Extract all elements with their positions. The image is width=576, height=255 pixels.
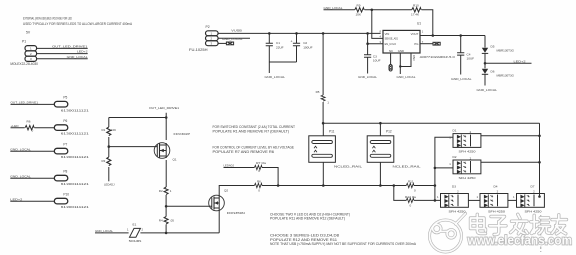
svg-text:SFH 4250: SFH 4250 <box>459 150 476 154</box>
svg-text:22UF: 22UF <box>276 46 284 50</box>
resistor R10 <box>411 3 433 35</box>
junction <box>371 9 374 12</box>
svg-text:PAD: PAD <box>412 55 416 61</box>
svg-text:U1: U1 <box>417 22 421 26</box>
svg-text:P11: P11 <box>329 130 335 134</box>
junction <box>484 62 487 65</box>
note: external bus voltage text <box>23 17 132 26</box>
svg-text:POPULATE R11 AND REMOVE R12 (D: POPULATE R11 AND REMOVE R12 (DEFAULT) <box>270 217 345 221</box>
wire P1 pin2 <box>37 53 88 55</box>
wire to D2 <box>435 167 453 169</box>
svg-text:P12: P12 <box>386 130 392 134</box>
wire P1 pin1 <box>37 47 88 49</box>
svg-text:R5: R5 <box>316 90 320 94</box>
junction <box>322 122 325 125</box>
junction <box>459 34 462 37</box>
junction <box>538 161 541 164</box>
svg-text:R11: R11 <box>408 180 414 184</box>
resistor R4 <box>159 206 175 233</box>
junction <box>108 145 111 148</box>
svg-text:D6: D6 <box>491 69 495 73</box>
svg-text:GND_LOCAL: GND_LOCAL <box>397 75 416 79</box>
junction <box>366 42 369 45</box>
capacitor C4 <box>457 36 474 75</box>
resistor R11 <box>406 180 435 193</box>
junction <box>393 184 396 187</box>
capacitor C2 <box>291 33 313 62</box>
svg-text:FDV302P: FDV302P <box>174 132 191 136</box>
svg-text:10K: 10K <box>111 128 116 132</box>
svg-text:GND_LOCAL: GND_LOCAL <box>222 37 243 41</box>
junction <box>538 135 541 138</box>
note: switched constant current <box>213 125 296 133</box>
svg-text:GND_LOCAL: GND_LOCAL <box>358 75 377 79</box>
wire VOUT rail <box>420 35 485 37</box>
svg-text:17.4K: 17.4K <box>411 13 420 17</box>
svg-text:61300111121: 61300111121 <box>61 182 90 186</box>
svg-text:www.elecfans.com: www.elecfans.com <box>467 233 572 248</box>
junction <box>434 184 437 187</box>
LED D3 <box>437 185 468 214</box>
svg-text:LED+2: LED+2 <box>77 50 88 54</box>
wire GND pin <box>399 53 401 74</box>
junction <box>165 232 168 235</box>
jumper E1 <box>127 222 144 243</box>
svg-text:SFH 4250: SFH 4250 <box>525 210 542 214</box>
junction <box>434 167 437 170</box>
wire sense divider <box>372 10 383 39</box>
svg-text:100UF: 100UF <box>303 46 312 50</box>
svg-text:FOR SWITCHED CONSTANT (2.4A) T: FOR SWITCHED CONSTANT (2.4A) TOTAL CURRE… <box>213 125 296 129</box>
LED D4 <box>477 185 508 214</box>
diode D5 <box>482 36 515 64</box>
svg-text:D3: D3 <box>452 185 456 189</box>
svg-text:GND_LOCAL: GND_LOCAL <box>451 77 472 81</box>
resistor R12 <box>394 186 441 208</box>
junction <box>165 116 168 119</box>
note: choose 3 series LED <box>270 233 417 246</box>
wire bottom rail <box>140 232 219 234</box>
junction <box>268 32 271 35</box>
resistor R3 <box>102 147 111 182</box>
wire to Q1 gate <box>109 146 156 148</box>
svg-text:D1: D1 <box>453 129 457 133</box>
connector P11 LED rail socket <box>309 123 363 185</box>
svg-text:GND_LOCAL: GND_LOCAL <box>67 55 88 59</box>
svg-text:LEDADJ: LEDADJ <box>104 183 115 187</box>
resistor R6 <box>254 179 323 192</box>
svg-text:MBR130T3G: MBR130T3G <box>497 48 515 52</box>
svg-text:P8: P8 <box>63 170 67 174</box>
svg-text:LEDADJ: LEDADJ <box>224 163 235 167</box>
testpoint P6 <box>11 119 90 136</box>
svg-text:USED TYPICALLY FOR SERIES LEDS: USED TYPICALLY FOR SERIES LEDS TO ALLOW … <box>23 22 132 26</box>
svg-text:0: 0 <box>32 129 34 133</box>
svg-text:POPULATE R1 AND REMOVE R7 (D: POPULATE R1 AND REMOVE R7 (DEFAULT) <box>213 129 290 133</box>
net-tie PG flag <box>433 42 440 45</box>
testpoint P10 <box>10 193 89 210</box>
wire top of Q1 divider <box>109 113 166 140</box>
wire D4-D7 <box>508 199 517 201</box>
resistor R7 <box>224 161 279 186</box>
wire Q2 drain up <box>219 186 254 199</box>
svg-text:Q1: Q1 <box>173 157 177 161</box>
LED D7 <box>513 185 544 214</box>
svg-text:50OHMS: 50OHMS <box>129 239 142 243</box>
resistor R5 <box>316 33 330 123</box>
svg-text:R10: R10 <box>413 3 419 7</box>
svg-text:P5: P5 <box>63 96 67 100</box>
transistor Q1 <box>154 132 190 162</box>
svg-text:61300111121: 61300111121 <box>61 155 90 159</box>
svg-text:PG: PG <box>414 42 418 46</box>
svg-text:SFH 4250: SFH 4250 <box>449 210 466 214</box>
junction <box>277 184 280 187</box>
transistor Q2 <box>209 188 245 214</box>
junction <box>379 122 382 125</box>
wire to Q2 gate <box>166 205 210 207</box>
svg-text:10UF: 10UF <box>467 56 475 60</box>
connector P12 LED rail socket <box>367 123 421 185</box>
svg-text:R2: R2 <box>159 189 163 193</box>
svg-text:10K: 10K <box>356 13 362 17</box>
junction VIN <box>366 32 369 35</box>
svg-text:D2: D2 <box>453 155 457 159</box>
wire bottom rail <box>95 232 129 234</box>
svg-text:LED+2: LED+2 <box>514 59 526 63</box>
svg-text:R4: R4 <box>159 219 163 223</box>
svg-text:61300111121: 61300111121 <box>61 108 90 112</box>
wire rail bottom <box>323 185 406 187</box>
wire Q1 drain down <box>165 160 167 187</box>
svg-text:GND_LOCAL: GND_LOCAL <box>477 88 498 92</box>
svg-text:E1: E1 <box>133 222 137 226</box>
resistor R2 <box>159 187 172 206</box>
svg-text:ADP7102ARDZ-5.0: ADP7102ARDZ-5.0 <box>420 55 455 59</box>
junction <box>165 205 168 208</box>
testpoint P5 <box>11 96 90 113</box>
svg-text:P6: P6 <box>63 119 67 123</box>
svg-text:GND: GND <box>398 49 404 53</box>
connector P1 <box>10 39 38 66</box>
svg-text:P2: P2 <box>206 25 210 29</box>
svg-text:OUT_LED_DRIVE1: OUT_LED_DRIVE1 <box>149 106 179 110</box>
junction <box>295 32 298 35</box>
svg-text:POPULATE R7 AND REMOVE R6: POPULATE R7 AND REMOVE R6 <box>213 150 275 154</box>
connector P2 <box>189 25 218 52</box>
svg-text:C2: C2 <box>303 41 307 45</box>
testpoint P7 <box>10 143 89 160</box>
wire Q2 source down <box>218 208 220 233</box>
svg-text:NCLED_RAIL: NCLED_RAIL <box>393 164 421 168</box>
svg-text:R3: R3 <box>102 159 106 163</box>
svg-text:VIN: VIN <box>385 32 390 36</box>
wire LED+ <box>485 62 532 64</box>
wire D1/D2 feed vertical <box>435 137 453 200</box>
wire LED top rail <box>323 122 539 124</box>
testpoint P8 <box>10 170 89 187</box>
svg-text:GND_LOCAL: GND_LOCAL <box>265 75 286 79</box>
diode D6 <box>482 63 515 85</box>
note: choose two LED <box>270 212 350 220</box>
svg-text:SENSE_ADJ: SENSE_ADJ <box>385 37 399 41</box>
svg-text:D7: D7 <box>531 185 535 189</box>
note: control of current level <box>213 145 295 154</box>
watermark text 电子发烧友 <box>471 214 567 234</box>
svg-text:MOLEX22-28-4030: MOLEX22-28-4030 <box>10 62 38 66</box>
wire cap ground <box>269 62 296 73</box>
wire P2 pin3 stub <box>218 42 226 44</box>
junction <box>432 34 435 37</box>
svg-text:C1: C1 <box>276 41 280 45</box>
pin PG stub <box>420 43 433 45</box>
svg-text:VOUT: VOUT <box>411 32 419 36</box>
wire P1 pin3 <box>37 58 88 60</box>
svg-text:P1: P1 <box>22 39 26 43</box>
svg-text:P7: P7 <box>63 143 67 147</box>
LED D2 <box>449 155 539 180</box>
wire VUSB rail <box>218 32 381 34</box>
svg-text:R9: R9 <box>357 3 361 7</box>
svg-text:NOTE THAT USB (<750mA SUPPLY): NOTE THAT USB (<750mA SUPPLY) MAY NOT BE… <box>270 242 417 246</box>
junction <box>399 65 401 67</box>
svg-text:R7 0w: R7 0w <box>256 161 267 165</box>
svg-text:OUT_LED_DRIVE1: OUT_LED_DRIVE1 <box>52 44 88 48</box>
svg-text:SFH 4250: SFH 4250 <box>459 176 476 180</box>
svg-text:EXTERNAL (NON-USB) BUS VOLTAGE: EXTERNAL (NON-USB) BUS VOLTAGE FOR LED <box>23 17 72 21</box>
capacitor C3 <box>364 44 381 74</box>
svg-text:R12 0w: R12 0w <box>405 195 417 199</box>
svg-text:VUSB: VUSB <box>231 28 242 32</box>
svg-text:CHOOSE 3 SERIES-LED D3,D4,D8: CHOOSE 3 SERIES-LED D3,D4,D8 <box>270 233 339 237</box>
svg-text:+: + <box>291 40 293 44</box>
svg-text:61300111121: 61300111121 <box>61 132 90 136</box>
svg-text:EN_UVLO: EN_UVLO <box>385 42 397 46</box>
svg-text:NC: NC <box>389 49 393 53</box>
svg-text:R6: R6 <box>27 120 31 124</box>
op-amp U1 regulator ADP7102 <box>379 22 455 59</box>
wire LED return vertical <box>539 123 541 196</box>
svg-text:MBR130T3G: MBR130T3G <box>497 73 515 77</box>
wire EN_UVLO <box>368 33 383 43</box>
net-tie shield <box>226 42 233 45</box>
capacitor C1 <box>266 33 284 62</box>
svg-text:5V: 5V <box>26 31 31 35</box>
svg-text:P10: P10 <box>63 193 69 197</box>
junction <box>434 199 437 202</box>
watermark logo elecfans <box>430 214 466 253</box>
svg-text:NCLED_RAIL: NCLED_RAIL <box>334 164 362 168</box>
pin PAD <box>400 53 416 67</box>
wire continuation faded <box>540 215 542 252</box>
junction <box>379 184 382 187</box>
junction <box>322 184 325 187</box>
ground GND_LOCAL (P2 pin2) <box>218 37 250 41</box>
wire D3-D4 <box>468 199 480 201</box>
svg-text:Q2: Q2 <box>224 188 228 192</box>
resistor R1 <box>102 118 117 147</box>
svg-text:R1: R1 <box>102 128 106 132</box>
junction <box>538 195 541 198</box>
pin NC stub <box>389 53 392 71</box>
svg-text:61300111121: 61300111121 <box>61 205 90 209</box>
svg-text:SFH 4250: SFH 4250 <box>488 210 505 214</box>
svg-text:FDN359N: FDN359N <box>227 211 245 215</box>
junction <box>322 32 325 35</box>
LED D1 <box>449 129 539 154</box>
svg-text:FOR CONTROL OF CURRENT LEVEL B: FOR CONTROL OF CURRENT LEVEL BY ADJ VOLT… <box>213 145 295 149</box>
resistor R9 <box>324 3 412 16</box>
svg-text:D4: D4 <box>494 185 498 189</box>
svg-text:R6: R6 <box>257 179 261 183</box>
svg-text:D5: D5 <box>491 44 495 48</box>
svg-text:10UF: 10UF <box>373 58 381 62</box>
svg-text:.05: .05 <box>170 219 175 223</box>
svg-text:FU-1025H: FU-1025H <box>189 48 208 52</box>
